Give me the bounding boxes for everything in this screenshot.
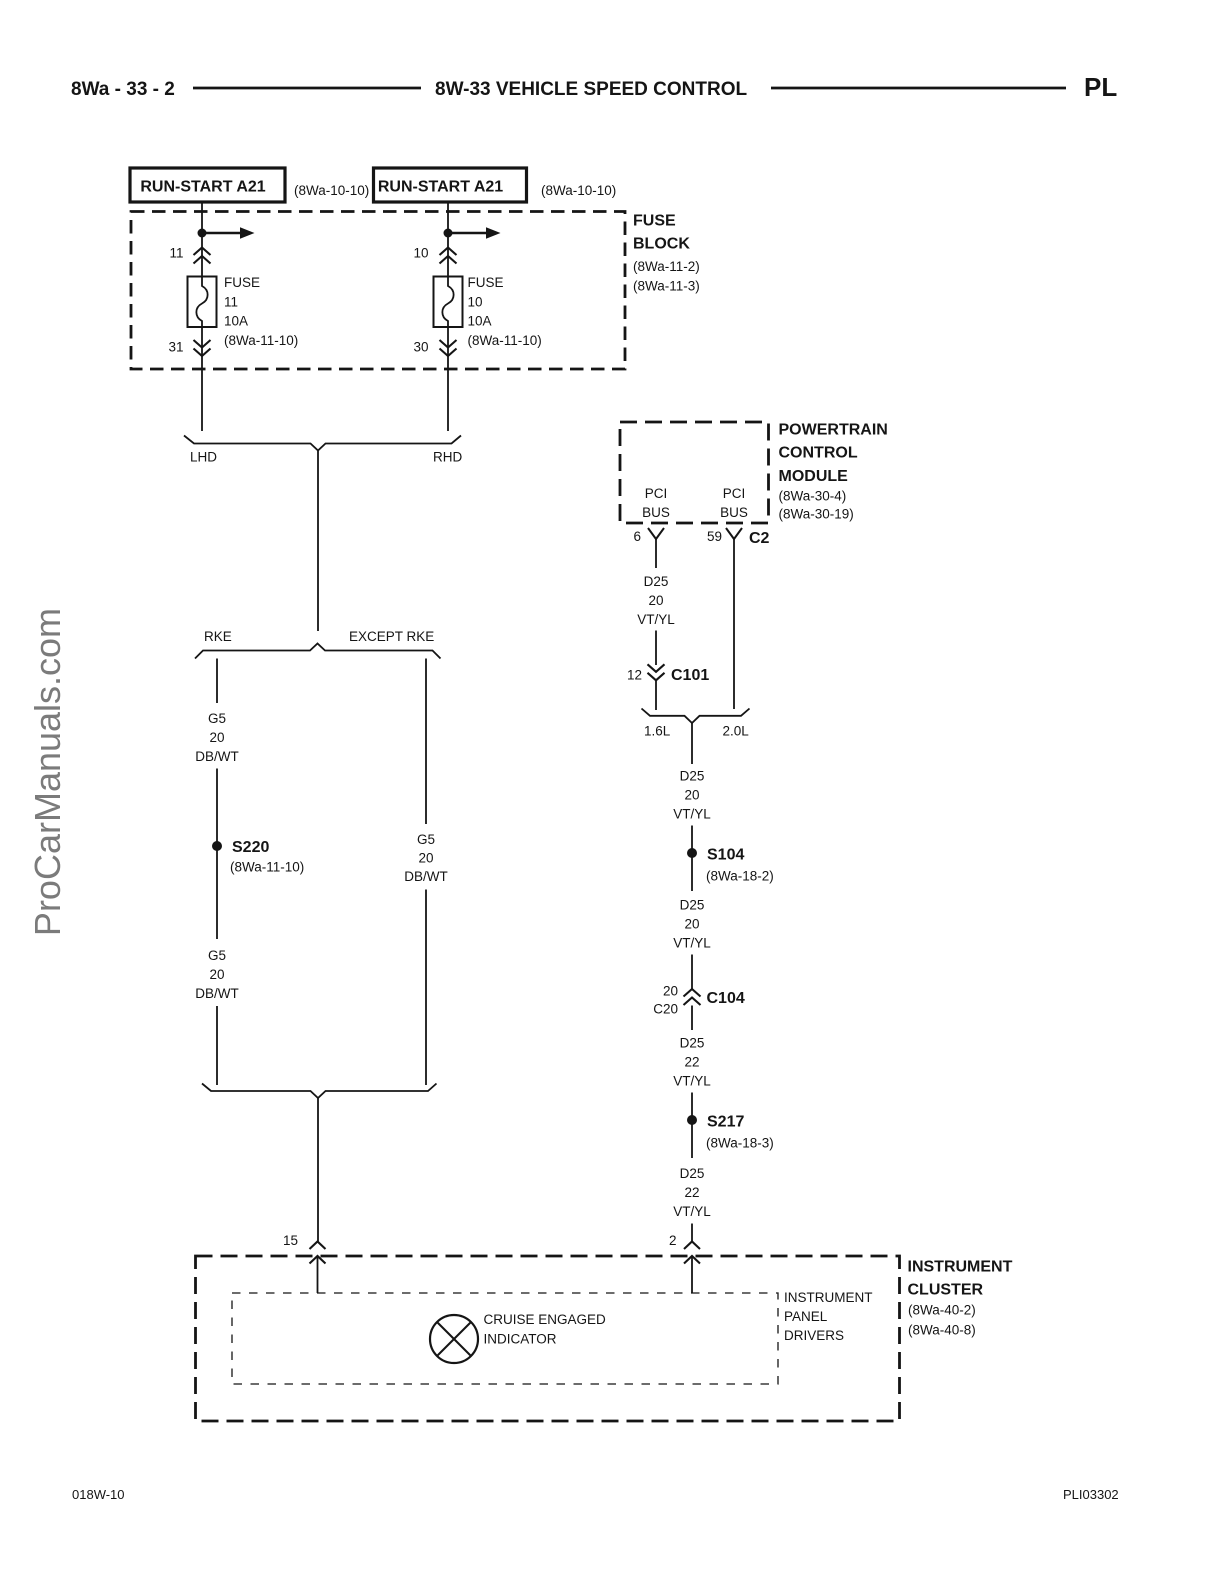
svg-text:(8Wa-30-19): (8Wa-30-19) [779,507,854,522]
svg-text:12: 12 [627,668,642,683]
svg-text:G5: G5 [417,832,435,847]
svg-text:D25: D25 [680,898,705,913]
svg-text:(8Wa-18-2): (8Wa-18-2) [706,869,774,884]
svg-text:INSTRUMENT: INSTRUMENT [908,1259,1013,1276]
svg-text:VT/YL: VT/YL [673,1074,711,1089]
svg-text:10A: 10A [224,314,248,329]
svg-text:INSTRUMENT: INSTRUMENT [784,1290,873,1305]
svg-text:8W-33 VEHICLE SPEED CONTROL: 8W-33 VEHICLE SPEED CONTROL [435,79,748,100]
svg-text:ProCarManuals.com: ProCarManuals.com [27,608,68,936]
svg-text:22: 22 [684,1055,699,1070]
svg-text:20: 20 [209,730,224,745]
svg-text:D25: D25 [680,1166,705,1181]
svg-text:DB/WT: DB/WT [404,869,448,884]
svg-text:S220: S220 [232,839,269,856]
svg-text:BUS: BUS [642,505,670,520]
svg-text:(8Wa-11-3): (8Wa-11-3) [633,279,700,294]
svg-text:S104: S104 [707,847,744,864]
svg-text:PCI: PCI [645,486,668,501]
svg-text:20: 20 [663,984,678,999]
svg-text:(8Wa-11-10): (8Wa-11-10) [224,333,298,348]
svg-text:(8Wa-40-2): (8Wa-40-2) [908,1303,976,1318]
svg-text:FUSE: FUSE [633,213,676,230]
svg-text:BUS: BUS [720,505,748,520]
svg-text:20: 20 [684,917,699,932]
svg-text:MODULE: MODULE [779,468,849,485]
svg-text:1.6L: 1.6L [644,724,671,739]
svg-text:(8Wa-11-2): (8Wa-11-2) [633,259,700,274]
svg-text:BLOCK: BLOCK [633,236,690,253]
svg-text:20: 20 [684,788,699,803]
svg-text:10: 10 [468,294,483,309]
svg-text:20: 20 [648,593,663,608]
svg-text:G5: G5 [208,711,226,726]
svg-text:EXCEPT RKE: EXCEPT RKE [349,629,434,644]
svg-text:C104: C104 [707,990,745,1007]
svg-text:20: 20 [418,851,433,866]
svg-text:RKE: RKE [204,629,232,644]
svg-text:(8Wa-10-10): (8Wa-10-10) [294,183,369,198]
svg-text:S217: S217 [707,1114,744,1131]
svg-text:6: 6 [633,529,641,544]
svg-text:31: 31 [168,340,183,355]
svg-text:VT/YL: VT/YL [673,936,711,951]
svg-text:2: 2 [669,1233,677,1248]
svg-text:30: 30 [413,340,428,355]
svg-text:D25: D25 [680,1036,705,1051]
svg-text:CRUISE ENGAGED: CRUISE ENGAGED [484,1312,607,1327]
svg-text:DRIVERS: DRIVERS [784,1328,844,1343]
svg-text:(8Wa-10-10): (8Wa-10-10) [541,183,616,198]
svg-text:(8Wa-40-8): (8Wa-40-8) [908,1323,976,1338]
svg-text:C2: C2 [749,530,770,547]
svg-text:11: 11 [224,294,238,309]
svg-text:POWERTRAIN: POWERTRAIN [779,422,888,439]
svg-text:15: 15 [283,1233,298,1248]
svg-text:G5: G5 [208,948,226,963]
svg-text:RHD: RHD [433,450,462,465]
svg-text:2.0L: 2.0L [723,724,750,739]
svg-text:VT/YL: VT/YL [673,807,711,822]
svg-text:C20: C20 [653,1002,678,1017]
svg-text:VT/YL: VT/YL [637,612,675,627]
svg-text:D25: D25 [644,574,669,589]
svg-text:PLI03302: PLI03302 [1063,1487,1119,1502]
svg-text:PCI: PCI [723,486,746,501]
svg-text:(8Wa-11-10): (8Wa-11-10) [468,333,542,348]
svg-text:RUN-START A21: RUN-START A21 [140,179,265,196]
svg-text:018W-10: 018W-10 [72,1487,125,1502]
svg-text:DB/WT: DB/WT [195,749,239,764]
svg-text:11: 11 [169,246,183,261]
svg-text:10A: 10A [468,314,492,329]
svg-text:FUSE: FUSE [224,275,260,290]
svg-text:D25: D25 [680,769,705,784]
svg-text:10: 10 [413,246,428,261]
svg-text:CLUSTER: CLUSTER [908,1282,984,1299]
svg-text:(8Wa-30-4): (8Wa-30-4) [779,489,847,504]
svg-text:C101: C101 [671,667,709,684]
svg-text:RUN-START A21: RUN-START A21 [378,179,503,196]
svg-text:59: 59 [707,529,722,544]
svg-text:PL: PL [1084,72,1117,102]
svg-text:DB/WT: DB/WT [195,986,239,1001]
svg-text:(8Wa-18-3): (8Wa-18-3) [706,1136,774,1151]
svg-text:CONTROL: CONTROL [779,445,858,462]
svg-text:PANEL: PANEL [784,1309,828,1324]
svg-text:(8Wa-11-10): (8Wa-11-10) [230,860,304,875]
svg-text:22: 22 [684,1185,699,1200]
svg-text:INDICATOR: INDICATOR [484,1332,557,1347]
svg-text:20: 20 [209,967,224,982]
svg-text:FUSE: FUSE [468,275,504,290]
svg-text:LHD: LHD [190,450,217,465]
svg-text:8Wa - 33 - 2: 8Wa - 33 - 2 [71,79,175,100]
svg-text:VT/YL: VT/YL [673,1204,711,1219]
